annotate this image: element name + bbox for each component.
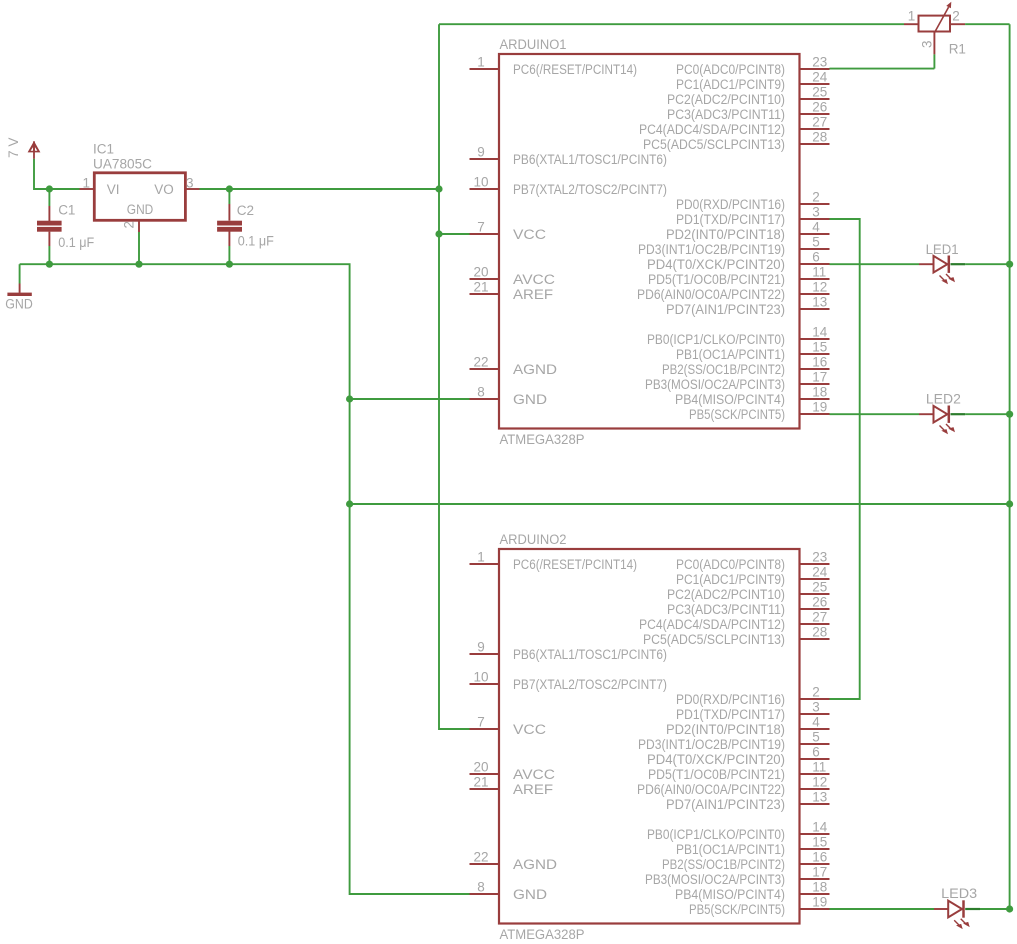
svg-text:ATMEGA328P: ATMEGA328P: [500, 927, 585, 942]
svg-text:R1: R1: [949, 42, 966, 57]
svg-text:IC1: IC1: [93, 142, 114, 157]
svg-text:2: 2: [952, 9, 960, 24]
svg-text:3: 3: [920, 40, 935, 48]
svg-text:0.1 μF: 0.1 μF: [238, 234, 274, 249]
svg-text:LED2: LED2: [926, 392, 961, 407]
svg-text:1: 1: [908, 9, 916, 24]
svg-text:1: 1: [82, 176, 90, 191]
svg-text:ARDUINO2: ARDUINO2: [500, 532, 567, 547]
svg-text:UA7805C: UA7805C: [93, 156, 152, 171]
svg-text:7 V: 7 V: [6, 138, 21, 159]
svg-text:C2: C2: [237, 203, 254, 218]
svg-text:VI: VI: [107, 182, 120, 197]
svg-text:3: 3: [186, 176, 194, 191]
svg-text:GND: GND: [127, 202, 154, 217]
svg-text:VO: VO: [154, 182, 174, 197]
svg-text:ATMEGA328P: ATMEGA328P: [500, 432, 585, 447]
svg-text:2: 2: [122, 221, 137, 229]
svg-text:ARDUINO1: ARDUINO1: [500, 37, 567, 52]
svg-text:0.1 μF: 0.1 μF: [58, 235, 94, 250]
svg-text:LED1: LED1: [926, 242, 959, 257]
svg-text:GND: GND: [5, 296, 33, 311]
svg-text:LED3: LED3: [941, 886, 977, 901]
svg-text:C1: C1: [58, 203, 75, 218]
